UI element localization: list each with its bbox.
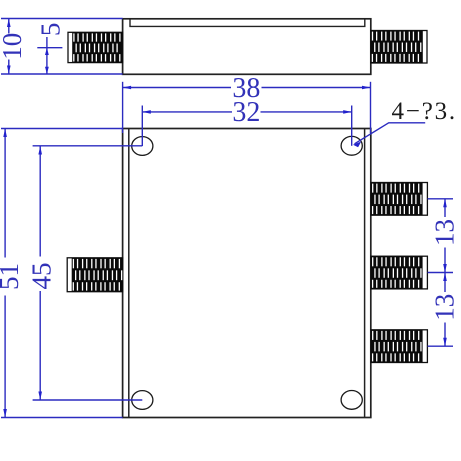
dimension 45 line [39,146,41,400]
top view right connector J2 (threaded) [371,31,427,64]
dimension 5 line and ticks [37,37,62,74]
svg-text:51: 51 [0,263,24,290]
dimension 13 arrows [443,199,447,346]
dimension 38 arrows [123,86,371,90]
svg-text:5: 5 [36,23,66,37]
main body inner wall lines [128,129,130,418]
main view right connector J5 (threaded, middle) [371,256,427,289]
dimension 5 arrows [45,48,49,74]
svg-text:13: 13 [430,219,460,246]
top view left connector J1 (threaded) [68,32,123,62]
dimension 32 line [142,111,351,113]
dimension 51 arrows [3,129,7,418]
top view lid step line [130,19,365,27]
hole bottom-left [132,391,153,410]
dimension 38 extension lines [123,82,371,133]
main view right connector J4 (threaded, top) [371,183,427,216]
leader arrowhead [353,142,361,148]
svg-text:13: 13 [430,294,460,321]
top view body outline [123,19,371,75]
dimension 10 line and arrows [8,19,10,75]
main body outline [123,129,371,418]
hole bottom-right [341,391,362,410]
dimension 13 lines [444,199,446,346]
dimension 32 arrows [142,110,351,114]
dimension 13 ticks (extension lines) [428,199,453,346]
svg-text:10: 10 [0,33,27,60]
main view left connector J3 (threaded) [67,258,122,292]
leader line for hole callout [355,123,426,144]
dimension 32 extension lines [142,106,351,147]
svg-text:45: 45 [27,263,57,290]
dimension 51 extension lines [1,129,123,418]
dimension 38 line [123,87,371,89]
hole top-left [132,137,153,156]
hole top-right [341,136,362,155]
svg-text:32: 32 [232,97,260,128]
dimension 45 extension lines [33,146,143,400]
dimension 45 arrows [38,146,42,400]
main view right connector J6 (threaded, bottom) [371,330,427,363]
svg-text:4−?3.: 4−?3. [392,98,457,125]
dimension 10 extension lines [1,19,123,75]
dimension 51 line [4,129,6,418]
